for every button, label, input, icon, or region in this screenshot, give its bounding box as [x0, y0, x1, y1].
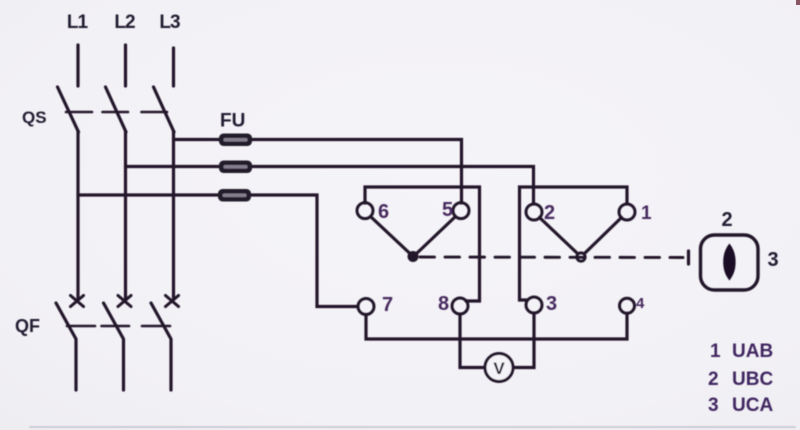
bottom photo edge line: [30, 426, 795, 428]
svg-text:L2: L2: [114, 12, 135, 33]
svg-text:L1: L1: [67, 12, 89, 33]
wire fuse FU1 output to contact 5: [250, 140, 462, 204]
wire contact 1 to contact 3: [520, 187, 628, 300]
breaker QF pole 2 fixed contact X: [118, 296, 131, 307]
wire fuse FU2 input: [126, 165, 222, 168]
svg-text:5: 5: [442, 199, 453, 221]
wire voltmeter to contact 3: [514, 313, 535, 368]
svg-text:2: 2: [544, 202, 555, 224]
svg-text:4: 4: [636, 295, 645, 312]
breaker QF pole 1 blade and outgoing wire: [56, 303, 76, 390]
contact 7: [358, 299, 374, 315]
breaker QF pole 2 blade and outgoing wire: [104, 303, 124, 390]
svg-text:UBC: UBC: [732, 369, 773, 390]
linkage end tick: [687, 251, 690, 264]
svg-text:UAB: UAB: [732, 341, 773, 362]
svg-text:FU: FU: [220, 111, 245, 132]
node right wiper pivot: [577, 253, 585, 261]
fuse FU3: [218, 189, 251, 202]
contact 3: [526, 297, 542, 313]
contact 1: [619, 204, 635, 220]
svg-text:7: 7: [382, 294, 393, 316]
wiper arm right contact 2 side: [540, 218, 578, 254]
wire fuse FU3 input: [78, 193, 220, 196]
switch QS pole 1 blade: [58, 87, 79, 132]
wire contact 6 to contact 8: [365, 187, 480, 301]
wire L2 incoming stub: [124, 45, 127, 86]
svg-text:1: 1: [641, 203, 652, 224]
wire phase L2 vertical: [124, 131, 127, 298]
svg-text:6: 6: [378, 201, 389, 223]
breaker QF pole 1 fixed contact X: [71, 296, 84, 307]
wiper arm right contact 1 side: [585, 218, 622, 254]
svg-text:8: 8: [438, 293, 449, 315]
node left wiper pivot: [409, 252, 418, 261]
wire phase L3 vertical: [172, 131, 175, 298]
corner speck: [796, 0, 800, 5]
breaker QF pole 3 blade and outgoing wire: [151, 303, 171, 390]
svg-text:3: 3: [708, 395, 719, 416]
svg-text:L3: L3: [159, 12, 180, 33]
svg-text:QS: QS: [22, 108, 47, 127]
switch QS pole 2 blade: [106, 87, 127, 132]
wire fuse FU3 output to contact 7: [249, 195, 357, 307]
mechanical linkage dashed line: [420, 256, 683, 259]
contact 6: [357, 203, 373, 219]
contact 5: [453, 203, 469, 219]
wire fuse FU1 input: [174, 138, 222, 141]
contact 2: [526, 204, 542, 220]
voltmeter PV: [485, 354, 513, 382]
wiper arm left contact 5 side: [416, 217, 456, 255]
wire contact 7 to contact 4 bottom bus: [366, 314, 627, 340]
svg-text:UCA: UCA: [732, 395, 773, 416]
svg-text:3: 3: [767, 249, 778, 271]
breaker QF linkage dashes: [67, 325, 170, 328]
fuse FU2: [219, 161, 252, 174]
wire L1 incoming stub: [76, 45, 79, 86]
selector switch SA knob box: [701, 235, 759, 290]
wire L3 incoming stub: [172, 48, 175, 86]
svg-text:QF: QF: [15, 316, 40, 336]
svg-text:V: V: [493, 359, 505, 378]
svg-text:2: 2: [721, 209, 732, 231]
switch QS linkage dashes: [66, 111, 167, 114]
wire fuse FU2 output to contact 2: [250, 167, 534, 205]
wire contact 8 down to voltmeter: [460, 314, 485, 368]
breaker QF pole 3 fixed contact X: [166, 296, 179, 307]
svg-text:3: 3: [546, 293, 557, 315]
wire phase L1 vertical: [76, 131, 79, 298]
fuse FU1: [219, 134, 252, 147]
svg-text:1: 1: [710, 341, 721, 362]
contact 4: [620, 298, 635, 313]
wiper arm left contact 6 side: [371, 217, 412, 255]
svg-text:2: 2: [708, 369, 719, 390]
contact 8: [452, 298, 468, 314]
selector switch SA knob slot: [723, 244, 735, 281]
switch QS pole 3 blade: [154, 87, 175, 132]
